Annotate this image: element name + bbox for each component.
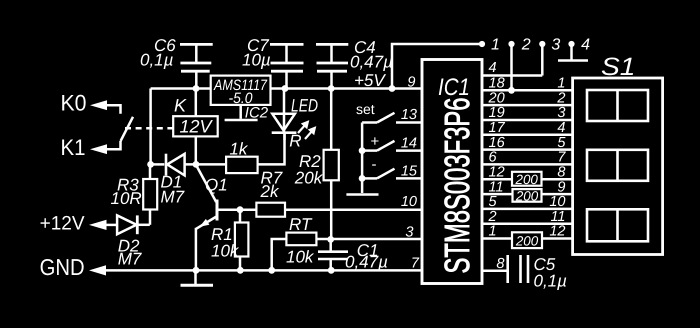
wire +12V rail left vertical bbox=[149, 89, 152, 165]
svg-text:R: R bbox=[289, 132, 301, 151]
node K1 bbox=[61, 135, 121, 160]
svg-text:20k: 20k bbox=[294, 169, 324, 188]
svg-text:12: 12 bbox=[549, 224, 565, 240]
wire row 1-12 right bbox=[542, 237, 573, 240]
resistor 200 a bbox=[512, 172, 542, 187]
row1 labels bbox=[489, 224, 566, 240]
diode D2 bbox=[117, 215, 142, 268]
svg-text:3: 3 bbox=[405, 225, 413, 241]
svg-text:5: 5 bbox=[557, 135, 566, 151]
svg-text:K: K bbox=[174, 96, 187, 116]
svg-text:K0: K0 bbox=[61, 91, 87, 116]
svg-text:11: 11 bbox=[550, 209, 565, 225]
svg-text:1: 1 bbox=[491, 37, 500, 54]
transistor Q1 bbox=[196, 166, 228, 270]
svg-text:15: 15 bbox=[401, 164, 418, 180]
svg-text:200: 200 bbox=[515, 172, 539, 187]
svg-text:IC1: IC1 bbox=[438, 74, 470, 101]
wire row 17-4 bbox=[482, 134, 573, 137]
svg-text:LED: LED bbox=[291, 96, 318, 116]
svg-text:STM8S003F3P6: STM8S003F3P6 bbox=[438, 98, 477, 274]
svg-text:+: + bbox=[371, 133, 380, 150]
svg-text:4: 4 bbox=[557, 120, 565, 136]
svg-text:2: 2 bbox=[488, 209, 497, 225]
diode D1 bbox=[161, 154, 185, 207]
LED emission arrows bbox=[298, 120, 316, 139]
wire 1k to LED bbox=[258, 133, 285, 164]
row17 labels bbox=[489, 120, 566, 136]
svg-text:10: 10 bbox=[549, 194, 565, 210]
node top pin 2 bbox=[508, 41, 514, 90]
row18 labels bbox=[489, 76, 566, 92]
switch plus bbox=[362, 133, 422, 151]
row2 labels bbox=[488, 209, 566, 225]
wire row 12-8 right bbox=[541, 178, 573, 181]
node R3/D1 bbox=[147, 161, 154, 168]
resistor R2 20k bbox=[294, 89, 339, 240]
LED bbox=[272, 89, 318, 141]
wire relay top bbox=[195, 89, 198, 117]
svg-text:20: 20 bbox=[488, 90, 505, 106]
svg-text:10R: 10R bbox=[111, 189, 142, 208]
svg-text:12: 12 bbox=[489, 165, 505, 181]
capacitor C1 bbox=[318, 239, 388, 271]
svg-text:K1: K1 bbox=[61, 135, 86, 160]
svg-text:6: 6 bbox=[489, 150, 498, 166]
node top pin 4 bbox=[558, 41, 588, 61]
row11 labels bbox=[489, 179, 566, 195]
wire row 5-10 bbox=[482, 208, 573, 211]
ground main bbox=[181, 270, 214, 285]
node top pin 1 bbox=[479, 41, 485, 47]
row6 labels bbox=[489, 150, 567, 166]
node top pin 3 bbox=[539, 41, 545, 76]
svg-text:17: 17 bbox=[489, 120, 506, 136]
svg-text:19: 19 bbox=[489, 105, 505, 121]
wire row 1-12 bbox=[482, 237, 512, 240]
wire node to D1 bbox=[151, 163, 165, 166]
S1 contact pair 2 bbox=[587, 150, 648, 181]
svg-text:3: 3 bbox=[557, 105, 565, 121]
svg-text:10µ: 10µ bbox=[242, 51, 271, 70]
wire row 12-8 bbox=[482, 178, 512, 181]
svg-text:2: 2 bbox=[521, 37, 531, 54]
capacitor C4 bbox=[316, 38, 393, 89]
svg-text:200: 200 bbox=[515, 234, 539, 249]
svg-text:16: 16 bbox=[489, 135, 506, 151]
row12 labels bbox=[489, 165, 566, 181]
wire row 16-5 bbox=[482, 148, 573, 151]
resistor 200 c bbox=[512, 232, 542, 248]
svg-text:+12V: +12V bbox=[40, 212, 85, 234]
node gnd Q1 bbox=[193, 267, 200, 274]
svg-text:9: 9 bbox=[407, 75, 415, 91]
svg-text:Q1: Q1 bbox=[205, 176, 228, 195]
wire row 18-1 bbox=[482, 89, 573, 92]
wire relay bottom to node bbox=[195, 136, 198, 164]
wire set common bbox=[361, 123, 364, 194]
svg-text:1: 1 bbox=[489, 224, 497, 240]
capacitor C5 pin 8 bbox=[482, 255, 567, 291]
svg-text:0,1µ: 0,1µ bbox=[534, 272, 568, 291]
svg-text:4: 4 bbox=[581, 37, 590, 54]
wire row 20-2 bbox=[482, 104, 573, 107]
S1 contact pair 1 bbox=[587, 90, 648, 121]
svg-text:2: 2 bbox=[556, 90, 565, 106]
wire +5V rail bbox=[271, 87, 423, 90]
wire D1 to collector node bbox=[185, 163, 227, 166]
svg-text:0,1µ: 0,1µ bbox=[140, 51, 174, 70]
node row18 bbox=[508, 87, 515, 94]
resistor 200 b bbox=[513, 188, 542, 203]
dashed actuator link bbox=[125, 127, 173, 130]
node set common 14 bbox=[359, 147, 366, 154]
arrow GND bbox=[89, 265, 106, 275]
S1 contact pair 3 bbox=[587, 209, 648, 241]
svg-text:14: 14 bbox=[401, 136, 417, 152]
svg-text:8: 8 bbox=[557, 165, 565, 181]
arrow +12V bbox=[89, 220, 107, 230]
svg-text:M7: M7 bbox=[118, 250, 142, 269]
svg-text:13: 13 bbox=[401, 107, 417, 123]
relay K coil 12V bbox=[173, 96, 218, 137]
switch minus bbox=[362, 156, 422, 178]
wire +5V up feed bbox=[392, 44, 482, 89]
wire GND rail bbox=[105, 269, 422, 272]
svg-text:GND: GND bbox=[40, 254, 85, 280]
node gnd C1 bbox=[328, 267, 335, 274]
wire 12V feed to regulator bbox=[151, 87, 211, 90]
svg-text:200: 200 bbox=[515, 188, 539, 203]
svg-text:set: set bbox=[356, 101, 375, 117]
capacitor C6 bbox=[140, 36, 213, 89]
svg-text:0,47µ: 0,47µ bbox=[350, 53, 393, 72]
wire D2 to R3 bbox=[137, 224, 150, 227]
resistor R 1k bbox=[226, 140, 258, 174]
thermistor RT bbox=[272, 215, 317, 270]
svg-text:-: - bbox=[372, 156, 377, 173]
svg-text:4: 4 bbox=[489, 60, 497, 76]
node C7/LED bbox=[282, 85, 289, 92]
wire base net to IC1 pin 10 bbox=[285, 208, 422, 211]
ground IC2 bbox=[225, 105, 269, 122]
wire row 2-11 bbox=[482, 222, 573, 225]
node junction at relay top bbox=[193, 85, 200, 92]
svg-text:7: 7 bbox=[411, 256, 420, 272]
resistor R3 bbox=[111, 164, 158, 224]
wire row pin4 bbox=[482, 74, 542, 77]
wire Q1 base bbox=[219, 208, 257, 211]
wire row 11-9 bbox=[482, 193, 513, 196]
svg-text:+5V: +5V bbox=[354, 71, 386, 90]
svg-text:0,47µ: 0,47µ bbox=[345, 252, 388, 271]
capacitor C7 bbox=[242, 36, 304, 89]
switch lever K bbox=[121, 117, 133, 141]
node RT/C1/R2 bbox=[327, 236, 334, 243]
svg-text:M7: M7 bbox=[161, 188, 185, 207]
svg-text:12V: 12V bbox=[179, 117, 213, 137]
svg-text:10: 10 bbox=[401, 194, 417, 210]
resistor R7 2k bbox=[256, 169, 285, 217]
node K0 bbox=[61, 91, 121, 116]
node gnd RT bbox=[268, 267, 275, 274]
svg-text:18: 18 bbox=[489, 76, 505, 92]
wire row 6-7 bbox=[482, 163, 573, 166]
svg-text:2k: 2k bbox=[260, 182, 280, 201]
ground set bbox=[346, 193, 378, 196]
switch set bbox=[362, 113, 422, 123]
wire row 11-9 right bbox=[541, 193, 573, 196]
svg-text:RT: RT bbox=[289, 215, 313, 234]
svg-text:IC2: IC2 bbox=[245, 105, 269, 122]
node collector bbox=[193, 161, 200, 168]
wire row 19-3 bbox=[482, 119, 573, 122]
wire +12V to D2 bbox=[105, 224, 117, 227]
regulator U AMS1117 IC2 bbox=[211, 76, 271, 107]
svg-text:9: 9 bbox=[557, 179, 565, 195]
node +5V feed up bbox=[389, 85, 396, 92]
node base/R1 bbox=[237, 206, 244, 213]
wire RT to IC1 pin 3 bbox=[316, 238, 422, 241]
node gnd R1 bbox=[237, 267, 244, 274]
connector S1 box bbox=[573, 53, 663, 255]
svg-text:3: 3 bbox=[551, 37, 560, 54]
op IC1 box bbox=[422, 60, 482, 284]
svg-text:11: 11 bbox=[489, 179, 504, 195]
row19 labels bbox=[489, 105, 566, 121]
node C4/R2 bbox=[328, 85, 335, 92]
svg-text:7: 7 bbox=[557, 150, 566, 166]
svg-text:10k: 10k bbox=[286, 248, 315, 267]
row20 labels bbox=[488, 90, 566, 106]
node set common 15 bbox=[359, 175, 366, 182]
svg-text:5: 5 bbox=[489, 194, 498, 210]
resistor R1 bbox=[211, 210, 248, 270]
row5 labels bbox=[489, 194, 566, 210]
svg-text:1: 1 bbox=[557, 76, 565, 92]
row16 labels bbox=[489, 135, 567, 151]
